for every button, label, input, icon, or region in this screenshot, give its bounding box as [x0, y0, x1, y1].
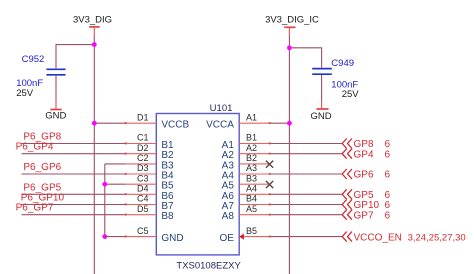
svg-text:GND: GND	[311, 111, 332, 122]
pin end ticks	[125, 122, 271, 237]
wire: branch to C952	[56, 45, 94, 69]
pin A3 (A4) wire to GP6	[239, 173, 270, 175]
wire: C952 to GND	[55, 76, 57, 101]
pin A1 (VCCA)	[239, 122, 270, 124]
svg-text:TXS0108EZXY: TXS0108EZXY	[176, 261, 241, 272]
no-connect X on A5	[266, 181, 273, 188]
wire+pin C5 (GND)	[105, 236, 126, 238]
svg-text:C952: C952	[22, 54, 45, 65]
ground symbol (right)	[311, 100, 332, 122]
offpage GP4	[342, 149, 352, 159]
offpage GP6	[342, 169, 352, 179]
svg-text:C3: C3	[137, 173, 149, 183]
offpage GP10	[342, 200, 352, 210]
svg-text:25V: 25V	[16, 88, 34, 99]
node: junction rail/VCCB	[92, 121, 97, 126]
wire: branch to C949	[289, 48, 321, 68]
svg-text:A5: A5	[246, 204, 257, 214]
pin B1 (A1) wire to GP8	[239, 143, 270, 145]
svg-text:U101: U101	[210, 103, 233, 114]
capacitor C949	[312, 58, 359, 100]
svg-text:VCCA: VCCA	[206, 120, 234, 131]
wire: C949 to GND	[321, 75, 323, 101]
wire: B3 tie to GND vertical	[105, 163, 126, 165]
svg-text:D5: D5	[137, 204, 149, 214]
power symbol 3V3_DIG	[73, 14, 112, 37]
ground symbol (left)	[45, 101, 66, 122]
net P6_GP10 wire to pin C4 (B7)	[22, 204, 126, 206]
svg-text:3V3_DIG_IC: 3V3_DIG_IC	[265, 14, 319, 25]
offpage GP8	[342, 139, 352, 149]
node: junction rail/VCCA	[287, 121, 292, 126]
svg-text:A8: A8	[222, 211, 235, 222]
svg-text:GND: GND	[161, 233, 183, 244]
arrowhead into OE	[239, 234, 244, 240]
svg-text:GND: GND	[45, 111, 66, 122]
svg-text:P6_GP6: P6_GP6	[23, 162, 61, 173]
svg-text:B4: B4	[246, 194, 257, 204]
net P6_GP7 wire to pin D5 (B8)	[22, 214, 126, 216]
svg-text:P6_GP7: P6_GP7	[16, 203, 54, 214]
svg-text:P6_GP4: P6_GP4	[16, 142, 54, 153]
node: junction B5/gnd vertical	[102, 182, 107, 187]
svg-text:C2: C2	[137, 153, 149, 163]
op-amp: none; IC U101 body	[156, 114, 239, 255]
node: junction 3V3_DIG / C952	[92, 42, 97, 47]
offpage VCCO_EN	[342, 232, 352, 242]
pin A4 (A6) wire to GP5	[239, 193, 270, 195]
offpage GP5	[342, 189, 352, 199]
svg-text:3,24,25,27,30: 3,24,25,27,30	[408, 232, 466, 243]
svg-text:D1: D1	[137, 112, 149, 122]
svg-text:A3: A3	[246, 163, 257, 173]
svg-text:A4: A4	[246, 184, 257, 194]
net P6_GP6 wire to pin D3 (B4)	[22, 173, 126, 175]
svg-text:OE: OE	[219, 233, 234, 244]
svg-text:C5: C5	[137, 226, 149, 236]
wire: 3V3_DIG rail vertical	[93, 37, 95, 274]
pin B3 (A5) no-connect	[239, 183, 269, 185]
pin B2 (A3) no-connect	[239, 163, 269, 165]
svg-text:A2: A2	[246, 143, 257, 153]
node: junction GND wire	[102, 234, 107, 239]
svg-text:B5: B5	[246, 226, 257, 236]
pin A2 (A2) wire to GP4	[239, 153, 270, 155]
svg-text:C949: C949	[331, 58, 354, 69]
svg-text:25V: 25V	[342, 89, 360, 100]
svg-text:VCCB: VCCB	[161, 120, 189, 131]
svg-text:A1: A1	[246, 112, 257, 122]
capacitor C952	[16, 54, 65, 99]
net P6_GP4 wire to pin D2 (B2)	[22, 153, 126, 155]
svg-text:6: 6	[385, 170, 391, 181]
svg-text:GP4: GP4	[354, 149, 374, 160]
wire: VCCB net from rail to pin D1	[94, 122, 125, 124]
pin B5 (OE) wire to VCCO_EN	[239, 236, 270, 238]
svg-text:D3: D3	[137, 163, 149, 173]
svg-text:B1: B1	[246, 133, 257, 143]
svg-text:D4: D4	[137, 184, 149, 194]
svg-text:6: 6	[385, 210, 391, 221]
pin D1 (VCCB)	[126, 122, 157, 124]
svg-text:C1: C1	[137, 133, 149, 143]
pin A5 (A8) wire to GP7	[239, 214, 270, 216]
svg-text:D2: D2	[137, 143, 149, 153]
svg-text:VCCO_EN: VCCO_EN	[354, 232, 402, 243]
svg-text:6: 6	[385, 149, 391, 160]
svg-text:B2: B2	[246, 153, 257, 163]
node: junction 3V3_DIG_IC / C949	[287, 45, 292, 50]
svg-text:3V3_DIG: 3V3_DIG	[73, 14, 112, 25]
svg-text:B3: B3	[246, 173, 257, 183]
offpage GP7	[342, 210, 352, 220]
svg-text:GP6: GP6	[354, 170, 374, 181]
wire: B5 tie to GND vertical	[105, 183, 126, 185]
power symbol 3V3_DIG_IC	[265, 14, 319, 36]
pin B4 (A7) wire to GP10	[239, 204, 270, 206]
wire: VCCA to rail	[270, 122, 290, 124]
no-connect X on A3	[266, 161, 273, 168]
net P6_GP5 wire to pin D4 (B6)	[22, 193, 126, 195]
wire: GND tie vertical (B3,B5,GND)	[104, 164, 106, 237]
wire: 3V3_DIG_IC rail vertical	[288, 36, 290, 274]
svg-text:C4: C4	[137, 194, 149, 204]
svg-text:B8: B8	[161, 211, 174, 222]
net P6_GP8 wire to pin C1 (B1)	[22, 143, 126, 145]
svg-text:GP7: GP7	[354, 210, 374, 221]
